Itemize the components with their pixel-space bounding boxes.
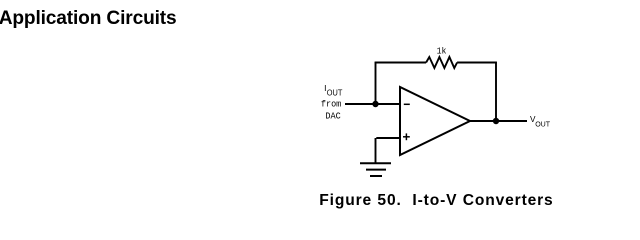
node IOUT input label	[321, 83, 343, 121]
op-amp U1	[400, 87, 470, 155]
wire: feedback top right segment	[457, 62, 497, 64]
node A: input junction	[372, 101, 378, 107]
ground	[360, 163, 391, 176]
node B: output junction	[493, 118, 499, 124]
wire: input from DAC to inverting input	[345, 103, 400, 105]
wire: non-inverting input	[376, 137, 400, 139]
pin label: inverting input minus	[404, 103, 410, 105]
resistor R (1k)	[426, 57, 457, 68]
svg-text:1k: 1k	[437, 46, 447, 57]
wire: junction up to feedback	[375, 62, 377, 104]
wire: feedback top left segment	[375, 62, 426, 64]
wire: op-amp output	[470, 120, 527, 122]
node VOUT output label	[530, 115, 550, 128]
svg-text:from: from	[321, 99, 342, 110]
heading: Application Circuits	[0, 8, 177, 30]
wire: right vertical down to output node	[495, 62, 497, 121]
svg-text:DAC: DAC	[325, 110, 341, 121]
wire: down to ground	[375, 138, 377, 163]
svg-text:OUT: OUT	[535, 119, 550, 128]
svg-text:OUT: OUT	[327, 89, 343, 98]
pin label: non-inverting input plus	[403, 133, 410, 140]
caption: Figure 50. I-to-V Converters	[319, 192, 553, 210]
